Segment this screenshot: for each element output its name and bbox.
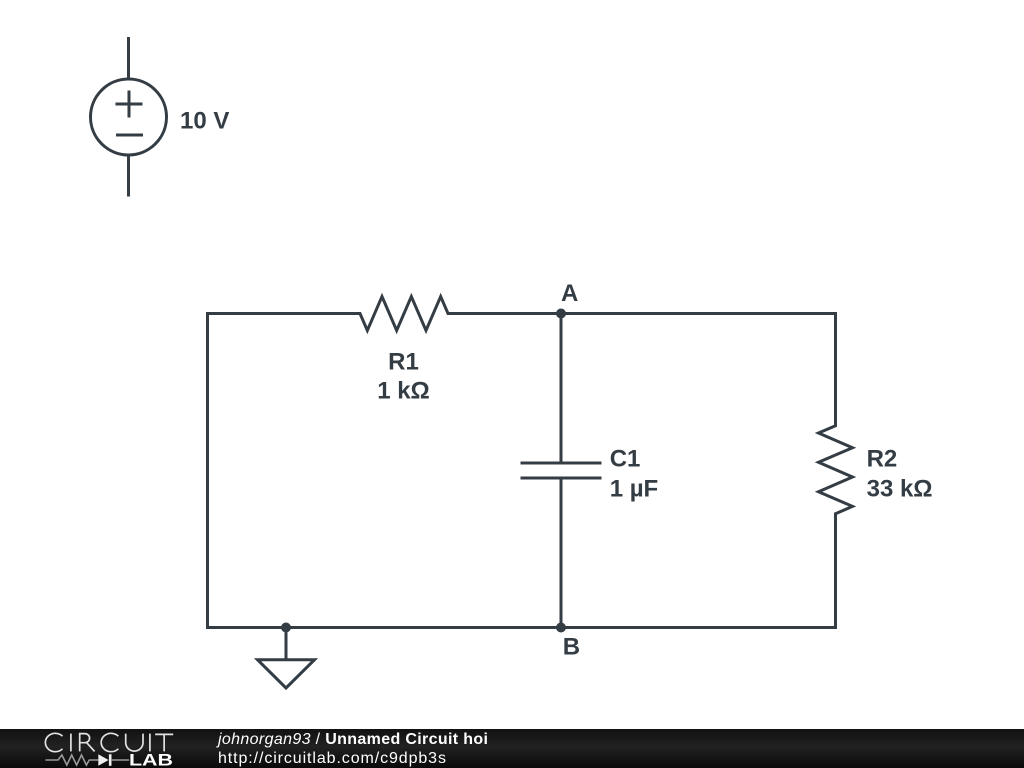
svg-text:B: B bbox=[563, 633, 580, 660]
svg-text:C1: C1 bbox=[610, 445, 641, 472]
svg-text:A: A bbox=[561, 280, 578, 307]
svg-text:10 V: 10 V bbox=[180, 108, 229, 135]
svg-text:1 µF: 1 µF bbox=[610, 476, 659, 503]
svg-text:33 kΩ: 33 kΩ bbox=[867, 476, 933, 503]
svg-text:R1: R1 bbox=[388, 349, 419, 376]
svg-text:R2: R2 bbox=[867, 445, 898, 472]
svg-text:1 kΩ: 1 kΩ bbox=[377, 378, 430, 405]
svg-text:LAB: LAB bbox=[129, 752, 173, 768]
